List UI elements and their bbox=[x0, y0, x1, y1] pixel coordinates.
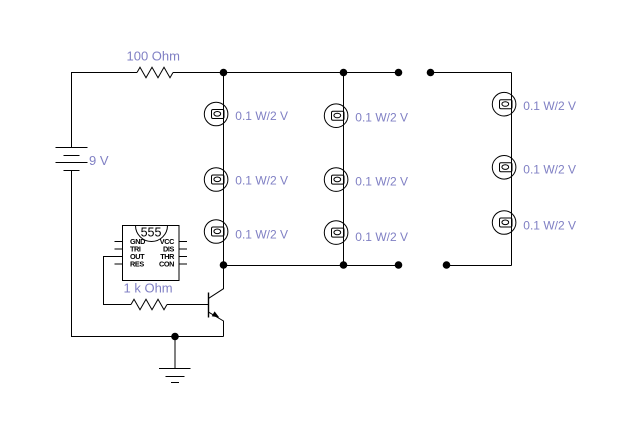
lamp L7 bbox=[492, 92, 516, 116]
node junction top rail break right bbox=[427, 69, 435, 77]
lamp L4 bbox=[324, 104, 348, 128]
resistor R1 100 Ohm bbox=[137, 67, 173, 77]
node junction top rail string1 bbox=[220, 69, 228, 77]
svg-text:0.1 W/2 V: 0.1 W/2 V bbox=[523, 218, 576, 232]
wire lamp string 2 bbox=[343, 73, 345, 266]
ground symbol bbox=[159, 369, 191, 383]
wire top-left from battery to resistor bbox=[72, 73, 138, 148]
wire lamp string 1 bbox=[223, 73, 225, 266]
resistor R2 1 k Ohm bbox=[131, 299, 167, 309]
svg-text:9 V: 9 V bbox=[89, 153, 109, 168]
lamp L6 bbox=[324, 221, 348, 245]
svg-text:1 k Ohm: 1 k Ohm bbox=[124, 281, 173, 296]
node junction bottom rail string1 bbox=[220, 261, 228, 269]
lamp L9 bbox=[492, 211, 516, 235]
svg-text:0.1 W/2 V: 0.1 W/2 V bbox=[235, 173, 288, 187]
pin stub TRI bbox=[115, 248, 123, 250]
wire top rail resistor to break bbox=[173, 72, 399, 74]
wire top rail after break bbox=[431, 72, 512, 74]
555 notch arc bbox=[136, 226, 168, 242]
transistor Q1 emitter arrow bbox=[212, 311, 220, 317]
svg-text:0.1 W/2 V: 0.1 W/2 V bbox=[355, 110, 408, 124]
svg-text:0.1 W/2 V: 0.1 W/2 V bbox=[235, 228, 288, 242]
svg-text:CON: CON bbox=[159, 260, 174, 269]
node junction top rail break left bbox=[395, 69, 403, 77]
svg-text:0.1 W/2 V: 0.1 W/2 V bbox=[523, 162, 576, 176]
wire OUT pin to resistor R2 bbox=[104, 257, 132, 305]
node junction bottom rail break right bbox=[443, 261, 451, 269]
wire ground stem bbox=[174, 337, 176, 369]
pin stub DIS bbox=[179, 248, 187, 250]
pin stub GND bbox=[115, 241, 123, 243]
svg-text:RES: RES bbox=[130, 260, 144, 269]
transistor Q1 base bar bbox=[208, 293, 210, 318]
lamp L5 bbox=[324, 168, 348, 192]
lamp L2 bbox=[204, 168, 228, 192]
wire bottom rail right segment bbox=[447, 265, 512, 267]
node junction bottom rail break left bbox=[395, 261, 403, 269]
lamp L3 bbox=[204, 220, 228, 244]
node junction ground dot bbox=[171, 333, 179, 341]
wire resistor R2 to transistor base bbox=[167, 304, 209, 306]
svg-text:0.1 W/2 V: 0.1 W/2 V bbox=[235, 109, 288, 123]
wire lamp string 3 bbox=[511, 73, 513, 266]
pin stub THR bbox=[179, 256, 187, 258]
pin stub RES bbox=[115, 263, 123, 265]
svg-text:100 Ohm: 100 Ohm bbox=[127, 49, 180, 64]
pin stub VCC bbox=[179, 241, 187, 243]
svg-text:0.1 W/2 V: 0.1 W/2 V bbox=[355, 230, 408, 244]
op IC U1 555 box bbox=[123, 226, 180, 281]
wire bottom rail left segment bbox=[224, 265, 399, 267]
node junction top rail string2 bbox=[340, 69, 348, 77]
svg-text:0.1 W/2 V: 0.1 W/2 V bbox=[523, 99, 576, 113]
lamp L1 bbox=[204, 102, 228, 126]
wire battery to bottom rail bbox=[72, 171, 224, 337]
lamp L8 bbox=[492, 156, 516, 180]
transistor Q1 collector bbox=[209, 266, 224, 299]
transistor Q1 emitter bbox=[209, 312, 224, 336]
svg-text:0.1 W/2 V: 0.1 W/2 V bbox=[355, 175, 408, 189]
battery V1 bbox=[56, 148, 88, 171]
pin stub CON bbox=[179, 263, 187, 265]
node junction bottom rail string2 bbox=[340, 261, 348, 269]
